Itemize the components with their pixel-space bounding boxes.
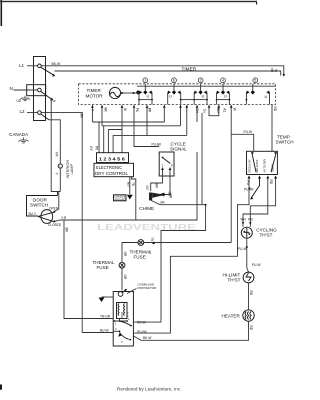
svg-text:RD: RD bbox=[273, 107, 277, 112]
wire N run bbox=[51, 99, 60, 192]
wire drop PU-W temp feed bbox=[231, 105, 254, 243]
timer cam contact group 1 bbox=[138, 84, 153, 105]
svg-text:HEATER: HEATER bbox=[222, 314, 241, 319]
svg-text:L2: L2 bbox=[20, 109, 26, 114]
svg-text:Rendered by LeadVenture, Inc.: Rendered by LeadVenture, Inc. bbox=[117, 387, 182, 393]
svg-text:BU: BU bbox=[216, 108, 220, 113]
svg-text:BU: BU bbox=[127, 182, 131, 187]
wire N lead bbox=[14, 89, 38, 91]
svg-text:2: 2 bbox=[200, 79, 202, 83]
svg-text:L1: L1 bbox=[19, 63, 25, 68]
svg-text:TIMER: TIMER bbox=[87, 88, 102, 93]
svg-text:REGULAR: REGULAR bbox=[247, 159, 251, 172]
wire L2 BK run bbox=[41, 112, 113, 332]
svg-text:1: 1 bbox=[144, 79, 146, 83]
temp switch bottom terminals bbox=[248, 176, 251, 179]
svg-text:PU-W: PU-W bbox=[238, 247, 247, 251]
wire BR branch down bbox=[64, 220, 114, 319]
svg-text:TN: TN bbox=[131, 182, 135, 187]
wire lamp feed bbox=[49, 120, 61, 192]
wire ECD output right bbox=[132, 177, 136, 220]
svg-text:U: U bbox=[265, 95, 268, 99]
wire lamp to door switch bbox=[55, 192, 59, 212]
svg-text:AUTO DRY: AUTO DRY bbox=[263, 159, 267, 173]
svg-text:W: W bbox=[232, 108, 236, 111]
switch blade N bbox=[41, 91, 51, 99]
svg-text:RD: RD bbox=[249, 326, 253, 331]
contact CLOSED bbox=[53, 220, 55, 222]
svg-text:OR: OR bbox=[123, 275, 127, 280]
svg-text:U: U bbox=[147, 95, 150, 99]
wire drop BR bbox=[146, 105, 148, 135]
wire cycling out bbox=[247, 238, 249, 272]
wire chime feed 2 bbox=[165, 176, 171, 195]
wire drop R2 right bbox=[180, 105, 182, 126]
wire drop PK to cycle signal bbox=[134, 105, 159, 147]
thermal fuse right bbox=[138, 240, 144, 246]
svg-text:RD-W: RD-W bbox=[137, 320, 146, 324]
svg-text:U: U bbox=[224, 95, 227, 99]
svg-text:PU-BK: PU-BK bbox=[137, 330, 148, 334]
svg-text:U: U bbox=[202, 95, 205, 99]
wire temp T4 to cycling RD bbox=[250, 179, 275, 227]
svg-text:FUSE: FUSE bbox=[97, 265, 109, 270]
wire drop BK bbox=[101, 105, 103, 126]
svg-text:RD: RD bbox=[269, 180, 273, 185]
dry control terminal strip bbox=[97, 153, 129, 163]
switch blade L2 bbox=[41, 114, 49, 120]
ground motor chassis bbox=[102, 296, 114, 298]
svg-text:PROTECTOR: PROTECTOR bbox=[138, 286, 158, 290]
electronic dry control U1 bbox=[94, 163, 134, 176]
timer cam circles bbox=[143, 78, 258, 83]
motor terminal 2 bbox=[119, 330, 121, 332]
thermal fuse wire H bbox=[122, 243, 231, 291]
wire row R2 bbox=[102, 125, 181, 127]
wire strip feed t2 bbox=[103, 126, 105, 153]
svg-text:U: U bbox=[169, 95, 172, 99]
svg-text:LAMP: LAMP bbox=[69, 164, 74, 175]
wire B run bbox=[55, 71, 281, 76]
svg-text:BU-Y: BU-Y bbox=[29, 212, 37, 216]
svg-text:CANADA: CANADA bbox=[9, 132, 29, 137]
overload protector bbox=[118, 292, 123, 297]
wire temp T1 to motor big loop bbox=[133, 179, 249, 334]
wire U loop bbox=[209, 105, 219, 116]
cycle signal contacts bbox=[163, 168, 171, 177]
svg-text:TIMER: TIMER bbox=[182, 67, 197, 72]
svg-text:1 2 3 4 5 6: 1 2 3 4 5 6 bbox=[99, 156, 125, 161]
wire row R1 bbox=[92, 121, 164, 123]
timer cam contact group 3 bbox=[193, 84, 208, 105]
svg-text:Y-R: Y-R bbox=[61, 216, 67, 220]
svg-text:5: 5 bbox=[254, 79, 256, 83]
svg-text:MOTOR: MOTOR bbox=[86, 94, 104, 99]
chime arrow bbox=[159, 193, 165, 197]
terminal L2 bbox=[38, 111, 42, 115]
chime CH1 bbox=[149, 193, 152, 201]
svg-text:RD: RD bbox=[248, 218, 253, 222]
svg-text:1: 1 bbox=[161, 164, 163, 168]
interior lamp IL bbox=[58, 164, 62, 168]
door switch rotor bbox=[41, 210, 53, 224]
blade tick L1 bbox=[52, 74, 55, 77]
svg-text:6: 6 bbox=[173, 79, 175, 83]
svg-text:FUSE: FUSE bbox=[134, 255, 146, 260]
svg-text:BK-W: BK-W bbox=[143, 336, 151, 340]
svg-text:CHIME: CHIME bbox=[139, 206, 154, 211]
svg-text:N: N bbox=[10, 86, 13, 91]
wire drop chime long bbox=[201, 113, 203, 205]
temp switch top terminals bbox=[251, 152, 254, 155]
timer box dashed bbox=[79, 84, 276, 105]
svg-text:Y-R: Y-R bbox=[55, 152, 59, 158]
door switch S1 bbox=[27, 192, 58, 217]
contact stub motor bbox=[136, 90, 140, 95]
terminal L1 bbox=[38, 64, 42, 68]
svg-text:SWITCH: SWITCH bbox=[276, 140, 294, 145]
page top edge bbox=[0, 1, 257, 2]
svg-text:3: 3 bbox=[171, 164, 173, 168]
motor windings bbox=[117, 303, 128, 319]
temp selector blade bbox=[249, 187, 251, 189]
motor box M1 bbox=[113, 292, 133, 347]
neutral box bbox=[27, 85, 46, 96]
svg-text:BR: BR bbox=[154, 184, 158, 189]
wire hilimit to heater bbox=[248, 283, 250, 310]
timer cam contact group 2 bbox=[168, 84, 194, 105]
svg-text:TN: TN bbox=[202, 109, 206, 114]
temp switch blades internal bbox=[252, 155, 275, 172]
contact OPEN bbox=[53, 211, 55, 213]
svg-text:SIGNAL: SIGNAL bbox=[170, 146, 187, 151]
wire drop temp feed right bbox=[271, 105, 273, 152]
hi-limit thermostat bbox=[243, 272, 254, 283]
timer cam contact group 5 bbox=[246, 84, 270, 105]
door switch common blade bbox=[38, 212, 54, 222]
svg-text:PU-W: PU-W bbox=[252, 263, 261, 267]
wire L1 lead bbox=[27, 65, 38, 67]
wire drop R4 right bbox=[186, 105, 188, 135]
wire chime out bbox=[151, 200, 206, 204]
wire drop W bbox=[121, 105, 123, 153]
svg-text:OR: OR bbox=[169, 194, 173, 199]
svg-text:W: W bbox=[123, 108, 127, 111]
thermal fuse left bbox=[119, 262, 125, 268]
svg-text:W: W bbox=[275, 69, 279, 72]
cycling thermostat bbox=[241, 227, 252, 238]
svg-text:RD: RD bbox=[249, 291, 253, 296]
wire chime feed 1 bbox=[151, 176, 163, 191]
ground chassis bbox=[127, 195, 133, 200]
svg-text:TH'ST: TH'ST bbox=[228, 278, 241, 283]
switch blade L1 bbox=[41, 67, 53, 74]
svg-text:AUX: AUX bbox=[126, 312, 129, 317]
svg-text:BR: BR bbox=[148, 108, 152, 113]
svg-text:CLOSED: CLOSED bbox=[48, 223, 62, 227]
svg-text:WH: WH bbox=[241, 218, 247, 222]
svg-text:BK-W: BK-W bbox=[52, 62, 62, 66]
svg-text:TH'ST: TH'ST bbox=[260, 233, 273, 238]
timer cam contact group 4 bbox=[216, 84, 231, 105]
svg-text:4: 4 bbox=[222, 79, 224, 83]
wire ground lead bbox=[129, 177, 131, 195]
svg-text:SWITCH: SWITCH bbox=[30, 203, 48, 208]
svg-text:OPEN: OPEN bbox=[49, 206, 59, 210]
wire temp T3 to cycling WH bbox=[243, 179, 268, 227]
wire chime bracket to motor bbox=[133, 205, 205, 322]
page edge artifact bbox=[1, 0, 3, 26]
svg-text:PU-W: PU-W bbox=[244, 130, 253, 134]
svg-text:ELECTRONIC: ELECTRONIC bbox=[96, 165, 123, 170]
wire drop Y bbox=[91, 105, 93, 122]
heater H1 bbox=[243, 310, 254, 321]
svg-text:TN: TN bbox=[150, 237, 154, 242]
svg-text:BU-W: BU-W bbox=[100, 328, 109, 332]
wire Y-R to right bbox=[54, 152, 197, 221]
svg-text:AZ: AZ bbox=[223, 108, 227, 112]
svg-text:DRY CONTROL: DRY CONTROL bbox=[95, 171, 128, 176]
wire label arrow L1 right bbox=[283, 74, 286, 77]
svg-text:TN-OR: TN-OR bbox=[100, 314, 111, 318]
wire motor to contact bbox=[121, 92, 137, 94]
cycle signal blade bbox=[162, 157, 164, 159]
terminal block TB1 bbox=[34, 57, 46, 121]
wire drop R1 right bbox=[163, 105, 165, 122]
svg-text:BR: BR bbox=[65, 228, 69, 233]
svg-text:GROUND: GROUND bbox=[114, 198, 125, 201]
wire row R3 bbox=[108, 130, 122, 153]
wire heater out bbox=[133, 321, 248, 340]
blade tick N bbox=[50, 98, 53, 101]
motor switch blade 2 bbox=[120, 333, 129, 340]
wire L2 lead bbox=[27, 112, 38, 114]
svg-text:PU-BK: PU-BK bbox=[152, 143, 163, 147]
wire strip feed t1 bbox=[98, 122, 100, 153]
wire drop GY long bbox=[196, 105, 198, 122]
timer bus line bbox=[137, 85, 276, 87]
wire L1 BK-W run bbox=[41, 66, 284, 74]
svg-text:MAIN: MAIN bbox=[120, 312, 123, 318]
motor terminals bbox=[114, 320, 116, 322]
terminal N bbox=[38, 88, 42, 92]
motor switch blade 1 bbox=[120, 321, 131, 325]
wire row R4 bbox=[113, 135, 187, 152]
svg-text:OR: OR bbox=[123, 252, 127, 257]
